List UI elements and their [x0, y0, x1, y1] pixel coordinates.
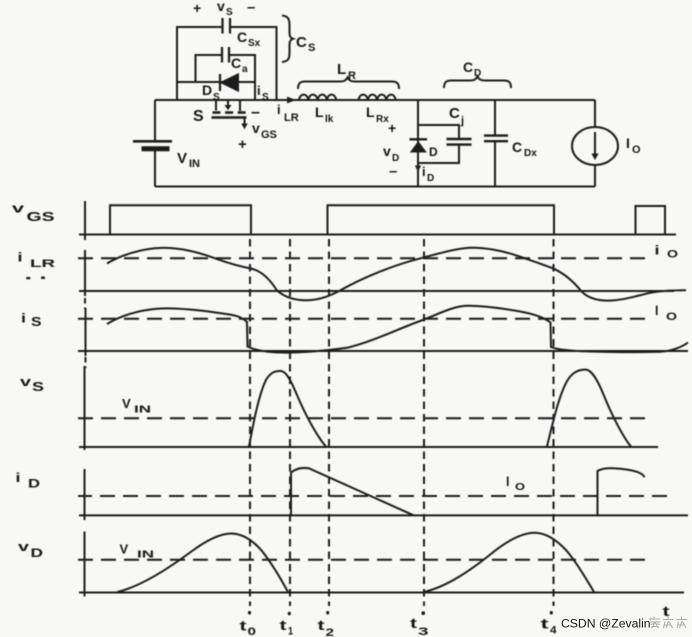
svg-text:t: t [410, 615, 417, 631]
axis vD [79, 532, 684, 597]
label iLR minus [251, 104, 260, 121]
svg-text:–: – [247, 0, 255, 16]
label LRx [366, 104, 389, 125]
waveform vD trace [118, 533, 595, 592]
svg-text:i: i [18, 251, 23, 265]
svg-text:L: L [337, 61, 346, 78]
svg-text:l: l [655, 304, 658, 318]
label CSx [237, 29, 261, 49]
axis iS [78, 308, 688, 368]
svg-text:v: v [383, 143, 391, 159]
svg-text:CSDN @Zevalin: CSDN @Zevalin [561, 617, 651, 631]
svg-text:O: O [667, 249, 679, 261]
waveform iS trace [107, 306, 688, 353]
svg-text:+: + [193, 0, 201, 16]
label vGS plus [238, 136, 247, 153]
label IO [626, 135, 641, 156]
label D [429, 145, 438, 159]
svg-text:C: C [512, 139, 522, 155]
label S [193, 108, 204, 125]
label vD [383, 143, 399, 164]
svg-text:C: C [296, 34, 307, 51]
label iS [257, 83, 269, 103]
wire left branch [154, 100, 156, 187]
svg-text:D: D [474, 68, 481, 79]
svg-text:v: v [252, 120, 260, 136]
svg-text:C: C [449, 105, 460, 122]
svg-text:C: C [231, 55, 241, 71]
label vS plus [193, 0, 201, 16]
label LR [337, 61, 356, 82]
svg-text:C: C [237, 29, 247, 45]
wire DS branch [177, 81, 255, 83]
inductor LRx [359, 95, 396, 100]
switch S current arrow [225, 101, 232, 110]
label DS [202, 82, 220, 103]
svg-text:v: v [12, 202, 24, 216]
svg-text:D: D [427, 173, 434, 184]
label iD row [16, 471, 41, 491]
waveform iLR trace [107, 248, 686, 301]
watermark cjk glyphs [649, 617, 687, 629]
svg-text:Sx: Sx [248, 38, 261, 49]
dashed level VIN for vD [78, 559, 650, 561]
svg-text:l: l [506, 475, 509, 489]
svg-text:j: j [460, 115, 464, 127]
dashed level IO for iS [78, 318, 650, 320]
label vD minus [389, 163, 397, 180]
label CD [463, 59, 481, 79]
svg-text:v: v [20, 375, 31, 389]
svg-text:GS: GS [27, 210, 55, 224]
svg-text:t: t [318, 617, 325, 633]
capacitor Cj [447, 139, 472, 145]
svg-text:D: D [31, 546, 44, 560]
svg-text:S: S [262, 92, 269, 103]
label vD plus [388, 120, 396, 136]
capacitor CDx branch wire [494, 100, 496, 187]
svg-text:i: i [21, 312, 26, 326]
svg-text:IN: IN [137, 550, 154, 561]
label vS [217, 0, 233, 18]
capacitor CDx [484, 136, 508, 142]
svg-text:O: O [632, 144, 641, 156]
label vGS row [12, 202, 55, 225]
svg-text:O: O [666, 311, 678, 323]
capacitor CSx [223, 18, 231, 34]
current arrow iD [415, 166, 421, 172]
svg-text:V: V [122, 396, 131, 411]
watermark [561, 617, 651, 631]
svg-text:t: t [541, 616, 550, 632]
brace CS [282, 16, 293, 63]
label Llk [315, 104, 334, 125]
switch S dashed plate [213, 111, 248, 113]
dashed level VIN for vS [78, 417, 650, 419]
svg-text:O: O [515, 481, 525, 493]
wire bottom rail [155, 186, 595, 188]
label VIN [177, 150, 200, 170]
svg-text:i: i [422, 164, 426, 179]
brace LR [298, 78, 399, 90]
svg-text:IN: IN [134, 405, 151, 416]
svg-text:S: S [193, 108, 204, 125]
svg-text:a: a [242, 64, 248, 75]
svg-text:i: i [655, 244, 660, 258]
waveform vS trace [249, 370, 631, 447]
diode DS [220, 74, 238, 91]
svg-text:R: R [348, 70, 356, 82]
svg-text:V: V [177, 150, 187, 167]
label CDx [512, 139, 537, 159]
capacitor Ca [222, 47, 229, 63]
svg-text:0: 0 [248, 626, 257, 637]
label iO [655, 244, 679, 261]
svg-text:IN: IN [189, 158, 200, 170]
svg-text:S: S [32, 380, 44, 394]
label t4 [541, 616, 558, 637]
svg-text:S: S [226, 7, 233, 18]
label Ca [231, 55, 248, 75]
label IO for iS [655, 304, 678, 323]
svg-text:–: – [389, 163, 397, 180]
label iLR [277, 102, 299, 124]
svg-text:L: L [366, 104, 375, 120]
label vGS [252, 120, 277, 141]
capacitor CSx loop wire [177, 27, 277, 100]
label Cj [449, 105, 464, 127]
svg-text:LR: LR [30, 258, 55, 270]
svg-text:C: C [463, 59, 473, 75]
marker line t4 [553, 239, 555, 606]
switch S drain stubs [216, 100, 240, 111]
svg-text:I: I [626, 135, 630, 151]
axis vGS [79, 201, 676, 240]
voltage source VIN battery [133, 141, 172, 149]
capacitor Cj loop wire [418, 125, 459, 163]
svg-text:D: D [202, 82, 212, 98]
brace CD [444, 77, 511, 89]
svg-text:t: t [240, 618, 247, 634]
svg-text:2: 2 [326, 627, 335, 637]
svg-text:3: 3 [418, 626, 429, 637]
svg-text:GS: GS [261, 129, 277, 141]
dashed level IO for iD [78, 495, 668, 497]
dashed level iO [78, 257, 650, 259]
label CS [296, 34, 315, 54]
svg-text:i: i [257, 83, 261, 98]
current source IO [572, 127, 618, 165]
svg-text:S: S [308, 42, 315, 54]
label VIN for vS [122, 396, 151, 416]
svg-text:i: i [277, 102, 281, 117]
svg-text:Dx: Dx [524, 148, 537, 159]
marker line t2 [328, 239, 330, 606]
svg-text:t: t [280, 617, 287, 633]
svg-text:V: V [120, 542, 129, 557]
marker line t0 [249, 239, 251, 606]
svg-text:–: – [251, 104, 260, 121]
label iLR row [18, 251, 56, 280]
label vS minus [247, 0, 255, 16]
svg-text:D: D [429, 145, 438, 159]
svg-text:4: 4 [550, 625, 557, 637]
label t3 [410, 615, 429, 637]
svg-text:1: 1 [288, 626, 293, 637]
label iD [422, 164, 434, 184]
label t1 [280, 617, 294, 637]
label vD row [18, 540, 43, 560]
current source IO wire [594, 100, 596, 187]
diode D [410, 139, 428, 152]
marker line t3 [423, 239, 425, 606]
svg-text:v: v [217, 0, 225, 14]
switch gate lead [241, 118, 247, 130]
label IO for iD [506, 475, 525, 493]
wire diode branch [417, 100, 419, 187]
svg-text:S: S [31, 315, 42, 329]
capacitor Ca loop wire [196, 55, 256, 100]
inductor Llk [299, 95, 336, 100]
switch S gate plate [212, 116, 247, 118]
tick dots below axis [248, 611, 553, 615]
label t axis [663, 603, 670, 619]
svg-text:lk: lk [325, 114, 334, 125]
svg-text:t: t [663, 603, 670, 619]
wire top rail [155, 99, 595, 101]
label VIN for vD [120, 542, 155, 561]
current arrow iLR on rail [287, 97, 296, 104]
waveform iD trace [291, 468, 645, 515]
svg-text:+: + [238, 136, 247, 153]
label t0 [240, 618, 257, 637]
svg-text:D: D [28, 477, 40, 491]
svg-text:v: v [18, 540, 29, 554]
svg-text:LR: LR [284, 112, 299, 124]
axis vS [79, 366, 658, 450]
marker line t1 [289, 239, 291, 606]
svg-text:+: + [388, 120, 396, 136]
waveform vGS trace [110, 205, 665, 234]
axis iD [79, 469, 688, 520]
svg-text:L: L [315, 104, 324, 120]
axis iLR [79, 250, 674, 309]
label iS row [21, 312, 42, 330]
svg-text:i: i [16, 471, 21, 485]
label vS row [20, 375, 44, 394]
label t2 [318, 617, 335, 637]
